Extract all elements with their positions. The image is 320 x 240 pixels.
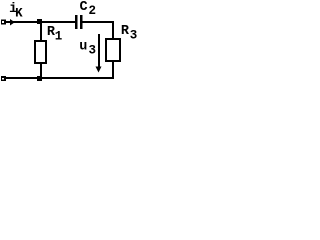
svg-text:C: C xyxy=(80,0,88,15)
svg-text:1: 1 xyxy=(55,30,63,44)
svg-text:K: K xyxy=(15,7,23,21)
svg-text:3: 3 xyxy=(130,29,138,43)
svg-text:3: 3 xyxy=(89,44,97,58)
svg-text:2: 2 xyxy=(89,4,97,18)
svg-text:u: u xyxy=(79,40,87,55)
svg-text:R: R xyxy=(121,24,130,39)
